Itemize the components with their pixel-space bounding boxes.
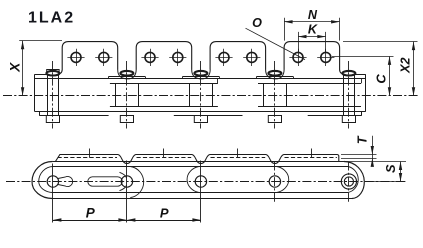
svg-text:1LA2: 1LA2	[28, 10, 75, 27]
svg-text:S: S	[384, 164, 398, 173]
svg-text:X: X	[7, 62, 22, 73]
svg-text:O: O	[252, 16, 262, 30]
svg-text:N: N	[308, 8, 318, 22]
svg-text:P: P	[86, 206, 96, 221]
svg-text:X2: X2	[398, 57, 412, 73]
svg-text:T: T	[355, 135, 369, 144]
svg-text:K: K	[308, 23, 318, 37]
svg-text:P: P	[160, 206, 169, 221]
svg-text:C: C	[374, 74, 389, 84]
